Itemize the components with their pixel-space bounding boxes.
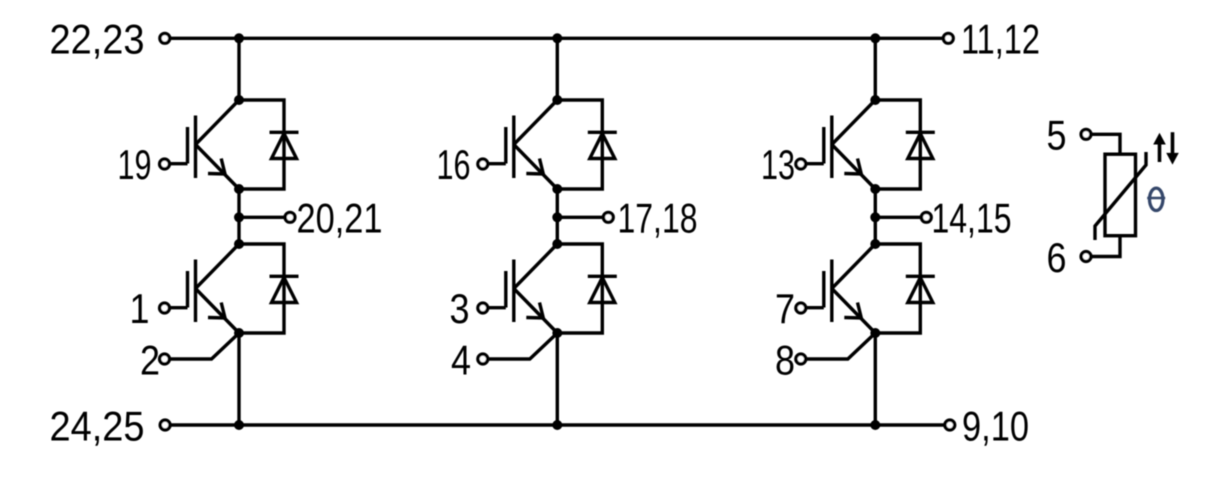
wire phase tap 14,15 — [875, 216, 921, 219]
node leg 3 collector Q5 — [870, 95, 880, 105]
NTC temperature symbol ϑ — [1147, 188, 1165, 210]
node leg 2 emitter Q4 — [552, 328, 562, 338]
svg-text:1: 1 — [130, 285, 150, 332]
node leg 1 emitter Q1 — [234, 184, 244, 194]
diode D5 triangle — [908, 134, 933, 159]
IGBT Q3 emitter arrow — [526, 159, 543, 175]
wire NTC bottom lead — [1091, 236, 1120, 257]
NTC thermistor diagonal — [1095, 152, 1146, 240]
terminal 1 (gate Q2) — [160, 303, 170, 313]
wire gate lead Q2 — [169, 306, 188, 309]
wire aux emitter 2 lead — [169, 334, 239, 360]
IGBT Q6 gate bar — [822, 271, 825, 308]
diode D4 cathode bar — [588, 275, 617, 278]
node leg 2 collector Q3 — [552, 95, 562, 105]
IGBT Q3 emitter diagonal — [514, 145, 558, 190]
terminal 19 (gate Q1) — [160, 159, 170, 169]
node leg 1 top bus junction — [234, 33, 244, 43]
node leg 1 collector Q2 — [234, 239, 244, 249]
svg-text:24,25: 24,25 — [50, 402, 145, 449]
wire leg 1 top segment — [237, 38, 240, 100]
wire aux emitter 4 lead — [487, 334, 557, 360]
diode D6 branch wire — [875, 244, 920, 333]
diode D2 triangle — [272, 278, 297, 303]
IGBT Q5 emitter diagonal — [832, 145, 876, 190]
svg-text:6: 6 — [1047, 234, 1067, 281]
terminal 14,15 (phase) — [921, 212, 931, 222]
terminal 17,18 (phase) — [603, 212, 613, 222]
wire NTC top lead — [1091, 134, 1120, 154]
IGBT Q4 emitter diagonal — [514, 289, 558, 334]
terminal 24,25 (DC-) — [160, 420, 170, 430]
diode D1 triangle — [272, 134, 297, 159]
IGBT Q3 gate bar — [504, 127, 507, 164]
svg-text:11,12: 11,12 — [961, 16, 1040, 63]
terminal 5 (NTC) — [1081, 129, 1091, 139]
node leg 3 top bus junction — [870, 33, 880, 43]
node leg 3 emitter Q6 — [870, 328, 880, 338]
diode D3 triangle — [590, 134, 615, 159]
IGBT Q3 body bar — [512, 116, 515, 179]
arrow down (resistance fall) — [1166, 132, 1179, 164]
NTC thermistor body — [1105, 154, 1136, 236]
IGBT Q6 emitter arrow — [844, 303, 861, 319]
wire gate lead Q3 — [487, 162, 506, 165]
terminal 22,23 (DC+) — [160, 33, 170, 43]
wire leg 1 bottom segment — [237, 333, 240, 425]
node leg 1 phase tap — [234, 212, 244, 222]
svg-text:3: 3 — [450, 285, 470, 332]
IGBT Q2 collector diagonal — [196, 244, 240, 289]
svg-text:14,15: 14,15 — [932, 195, 1012, 242]
wire gate lead Q1 — [169, 162, 188, 165]
wire gate lead Q6 — [805, 306, 824, 309]
IGBT Q5 body bar — [830, 116, 833, 179]
IGBT Q2 body bar — [194, 260, 197, 323]
IGBT Q1 gate bar — [186, 127, 189, 164]
terminal 20,21 (phase) — [285, 212, 295, 222]
svg-text:4: 4 — [451, 336, 471, 383]
IGBT Q4 emitter arrow — [526, 303, 543, 319]
IGBT Q4 gate bar — [504, 271, 507, 308]
node leg 3 collector Q6 — [870, 239, 880, 249]
wire bottom bus DC- — [170, 423, 945, 426]
diode D2 branch wire — [239, 244, 284, 333]
wire top bus DC+ — [170, 37, 944, 40]
node leg 2 phase tap — [552, 212, 562, 222]
svg-text:5: 5 — [1047, 112, 1067, 159]
terminal 3 (gate Q4) — [478, 303, 488, 313]
svg-text:22,23: 22,23 — [50, 16, 145, 63]
wire aux emitter 8 lead — [805, 334, 875, 360]
svg-text:20,21: 20,21 — [297, 195, 383, 242]
terminal 6 (NTC) — [1081, 252, 1091, 262]
wire leg 2 bottom segment — [556, 333, 559, 425]
diode D6 cathode bar — [906, 275, 935, 278]
wire leg 3 midpoint segment — [874, 189, 877, 244]
IGBT Q2 emitter diagonal — [196, 289, 240, 334]
wire leg 1 midpoint segment — [237, 189, 240, 244]
wire gate lead Q5 — [805, 162, 824, 165]
node leg 3 emitter Q5 — [870, 184, 880, 194]
svg-text:16: 16 — [437, 141, 471, 188]
arrow up (resistance rise) — [1153, 133, 1166, 162]
IGBT Q5 gate bar — [822, 127, 825, 164]
IGBT Q5 emitter arrow — [844, 159, 861, 175]
terminal 2 (aux emitter) — [160, 354, 170, 364]
svg-text:8: 8 — [775, 336, 795, 383]
diode D5 cathode bar — [906, 131, 935, 134]
node leg 2 bottom bus junction — [552, 420, 562, 430]
node leg 2 emitter Q3 — [552, 184, 562, 194]
terminal 7 (gate Q6) — [796, 303, 806, 313]
node leg 1 collector Q1 — [234, 95, 244, 105]
wire phase tap 17,18 — [557, 216, 603, 219]
IGBT Q6 collector diagonal — [832, 244, 876, 289]
diode D1 cathode bar — [270, 131, 299, 134]
diode D3 branch wire — [557, 100, 602, 189]
wire gate lead Q4 — [487, 306, 506, 309]
terminal 13 (gate Q5) — [796, 159, 806, 169]
terminal 11,12 (DC+) — [943, 33, 953, 43]
terminal 9,10 (DC-) — [945, 420, 955, 430]
IGBT Q1 emitter arrow — [208, 159, 225, 175]
terminal 16 (gate Q3) — [478, 159, 488, 169]
node leg 1 bottom bus junction — [234, 420, 244, 430]
IGBT Q5 collector diagonal — [832, 100, 876, 145]
IGBT Q4 body bar — [512, 260, 515, 323]
node leg 3 phase tap — [870, 212, 880, 222]
svg-text:19: 19 — [118, 141, 152, 188]
diode D3 cathode bar — [588, 131, 617, 134]
IGBT Q2 emitter arrow — [208, 303, 225, 319]
wire leg 2 top segment — [556, 38, 559, 100]
IGBT Q2 gate bar — [186, 271, 189, 308]
diode D4 branch wire — [557, 244, 602, 333]
IGBT Q6 emitter diagonal — [832, 289, 876, 334]
IGBT Q1 collector diagonal — [196, 100, 240, 145]
IGBT Q1 emitter diagonal — [196, 145, 240, 190]
diode D6 triangle — [908, 278, 933, 303]
IGBT Q3 collector diagonal — [514, 100, 558, 145]
node leg 3 bottom bus junction — [870, 420, 880, 430]
svg-text:17,18: 17,18 — [618, 195, 698, 242]
diode D5 branch wire — [875, 100, 920, 189]
IGBT Q4 collector diagonal — [514, 244, 558, 289]
node leg 2 collector Q4 — [552, 239, 562, 249]
node leg 2 top bus junction — [552, 33, 562, 43]
node leg 1 emitter Q2 — [234, 328, 244, 338]
diode D1 branch wire — [239, 100, 284, 189]
diode D4 triangle — [590, 278, 615, 303]
wire leg 3 top segment — [874, 38, 877, 100]
terminal 4 (aux emitter) — [478, 354, 488, 364]
svg-text:2: 2 — [140, 336, 160, 383]
IGBT Q6 body bar — [830, 260, 833, 323]
wire leg 3 bottom segment — [874, 333, 877, 425]
wire leg 2 midpoint segment — [556, 189, 559, 244]
IGBT Q1 body bar — [194, 116, 197, 179]
diode D2 cathode bar — [270, 275, 299, 278]
wire phase tap 20,21 — [239, 216, 285, 219]
terminal 8 (aux emitter) — [796, 354, 806, 364]
svg-text:9,10: 9,10 — [962, 402, 1029, 449]
svg-text:13: 13 — [761, 141, 795, 188]
svg-text:7: 7 — [775, 285, 795, 332]
